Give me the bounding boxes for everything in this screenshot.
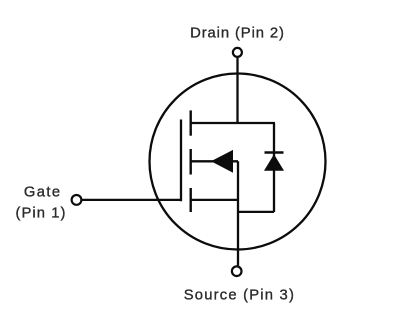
diode D1 vertical wire bbox=[273, 123, 275, 212]
wire diode bottom to source bbox=[238, 211, 274, 213]
wire drain vertical bbox=[236, 58, 238, 123]
drain terminal pin 2 bbox=[233, 48, 242, 57]
channel segment middle bbox=[189, 149, 191, 175]
channel segment top bbox=[189, 110, 191, 135]
channel segment bottom bbox=[189, 188, 191, 212]
wire source vertical bbox=[237, 161, 239, 265]
gate terminal pin 1 bbox=[72, 195, 82, 205]
svg-text:Source (Pin 3): Source (Pin 3) bbox=[184, 288, 295, 304]
transistor Q1 package circle bbox=[150, 74, 326, 250]
body arrow into channel bbox=[211, 150, 233, 173]
diode D1 cathode bar bbox=[265, 151, 284, 153]
wire source stub bbox=[191, 199, 238, 201]
gate electrode line bbox=[180, 120, 182, 202]
wire body stub bbox=[191, 160, 238, 162]
svg-text:Drain (Pin 2): Drain (Pin 2) bbox=[190, 25, 285, 41]
wire drain stub to diode top bbox=[190, 122, 276, 124]
svg-text:Gate: Gate bbox=[24, 184, 62, 200]
wire gate horizontal bbox=[82, 199, 181, 201]
diode D1 anode triangle bbox=[264, 154, 284, 171]
source terminal pin 3 bbox=[232, 266, 242, 276]
svg-text:(Pin 1): (Pin 1) bbox=[16, 205, 67, 221]
